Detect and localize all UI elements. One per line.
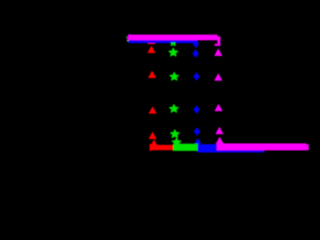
row2 red triangle <box>148 71 155 78</box>
bottom magenta error bar right end <box>307 145 309 151</box>
top row: blue error bar <box>129 39 198 44</box>
row4 green star <box>171 130 180 137</box>
row4 red triangle <box>149 132 156 139</box>
row2 magenta triangle <box>215 74 222 81</box>
top row: magenta right cap step <box>217 36 220 43</box>
bottom red error bar left cap <box>150 144 152 151</box>
bottom blue diamond marker <box>195 139 201 147</box>
bottom red triangle marker <box>150 140 157 147</box>
top row: green star remnant block <box>171 42 176 44</box>
top row: green star right foot <box>174 45 176 46</box>
top row: blue diamond marker <box>193 40 199 48</box>
top row: magenta error bar left tip <box>127 39 128 40</box>
row1 red triangle <box>148 46 155 53</box>
row2 green star <box>170 73 179 80</box>
bottom magenta triangle marker <box>216 137 223 144</box>
top row: magenta thick error bar <box>128 35 218 41</box>
row3 magenta triangle <box>215 104 222 111</box>
bottom red error bar <box>150 145 174 150</box>
row2 blue diamond <box>194 73 200 81</box>
bottom blue error bar <box>198 144 264 152</box>
bottom green error bar <box>173 144 198 151</box>
row3 red triangle <box>149 107 156 114</box>
bottom magenta error bar <box>217 143 307 150</box>
row4 magenta triangle <box>216 127 223 134</box>
top row: magenta marker foot <box>215 44 221 46</box>
row1 magenta triangle <box>215 49 222 56</box>
bottom green star marker <box>172 138 181 145</box>
row3 green star <box>170 105 179 112</box>
row1 green star <box>169 48 178 55</box>
row1 blue diamond <box>193 50 199 58</box>
top row: red marker base (partially hidden) <box>148 43 155 44</box>
top row: blue error bar left cap <box>129 34 130 43</box>
row4 blue diamond <box>194 128 200 136</box>
row3 blue diamond <box>194 106 200 114</box>
top row: green star left foot <box>171 45 173 46</box>
top row: green cap dot upper <box>126 37 127 38</box>
top row: green cap dot lower <box>127 40 128 41</box>
